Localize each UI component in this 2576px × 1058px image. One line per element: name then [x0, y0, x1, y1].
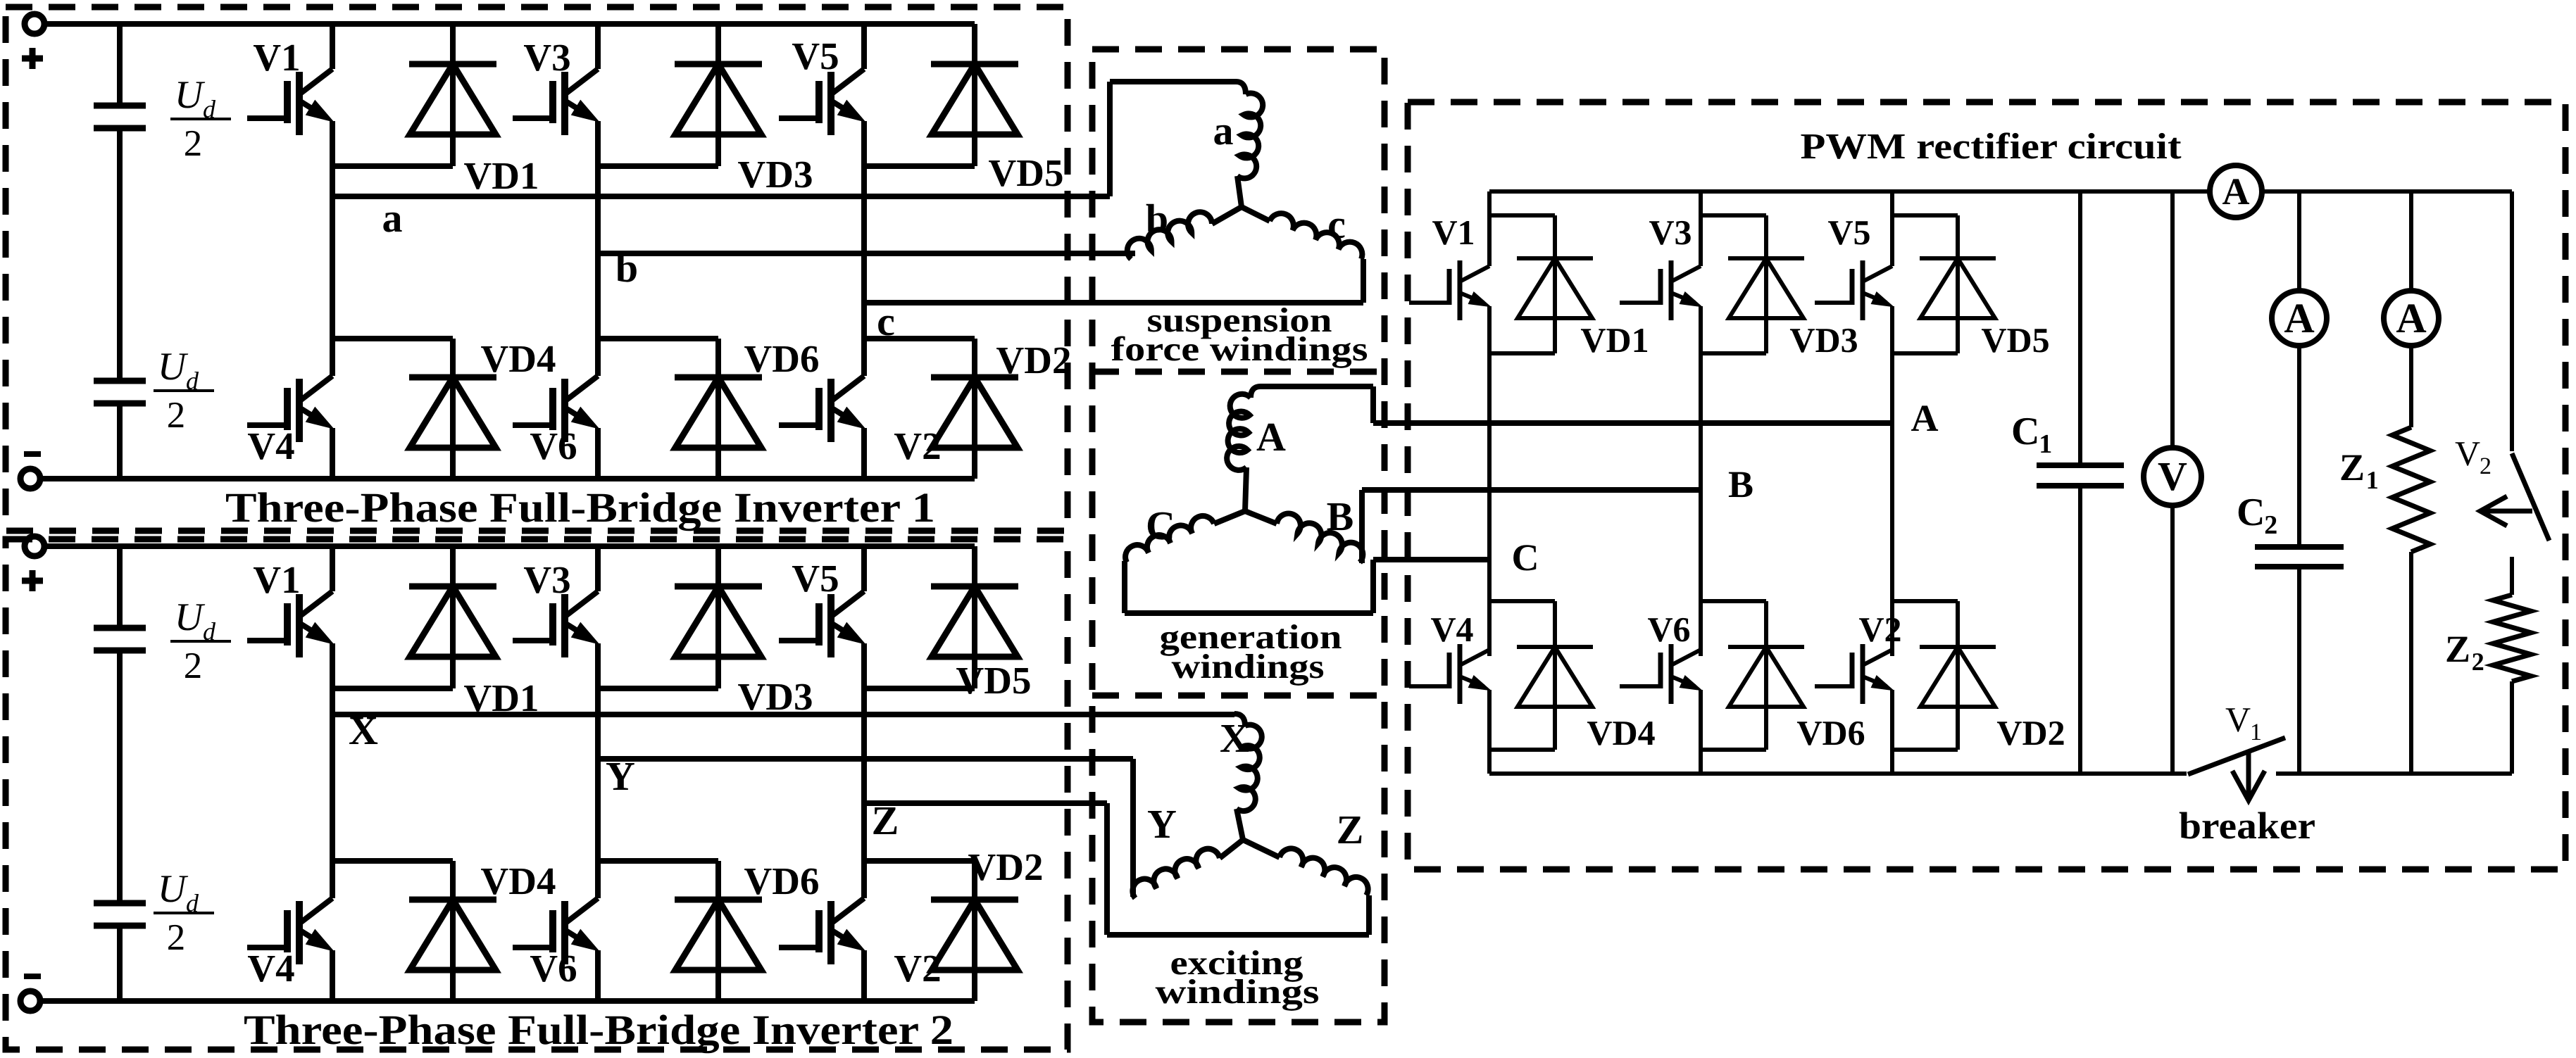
svg-text:c: c [877, 298, 895, 344]
svg-text:V: V [2455, 434, 2480, 473]
svg-text:A: A [2222, 170, 2250, 213]
svg-text:U: U [158, 867, 189, 911]
svg-text:V3: V3 [523, 36, 570, 79]
svg-text:U: U [175, 596, 206, 639]
svg-text:A: A [2284, 295, 2314, 341]
svg-text:VD2: VD2 [1996, 713, 2065, 752]
svg-text:VD6: VD6 [1796, 713, 1865, 752]
svg-text:VD4: VD4 [1587, 713, 1655, 752]
svg-text:V2: V2 [894, 947, 941, 990]
svg-text:V5: V5 [1827, 213, 1870, 252]
svg-text:X: X [1220, 715, 1249, 761]
svg-text:V6: V6 [530, 424, 577, 467]
svg-text:V6: V6 [530, 947, 577, 990]
svg-text:V5: V5 [792, 34, 839, 77]
svg-text:V: V [2225, 700, 2251, 739]
svg-text:V3: V3 [1649, 213, 1692, 252]
svg-text:windings: windings [1172, 647, 1325, 686]
svg-text:C: C [2237, 491, 2265, 534]
svg-text:Z: Z [872, 798, 899, 843]
svg-text:VD2: VD2 [996, 339, 1072, 382]
svg-text:A: A [1256, 414, 1286, 460]
svg-text:2: 2 [2264, 510, 2277, 540]
svg-text:V1: V1 [253, 36, 300, 79]
svg-text:2: 2 [2472, 648, 2484, 676]
svg-text:V4: V4 [247, 947, 294, 990]
svg-text:breaker: breaker [2179, 805, 2315, 847]
svg-text:b: b [1146, 196, 1168, 241]
svg-text:A: A [1911, 397, 1939, 439]
svg-text:X: X [349, 707, 378, 753]
svg-text:2: 2 [184, 123, 203, 164]
svg-text:VD6: VD6 [744, 859, 820, 902]
svg-text:Three-Phase Full-Bridge Inver: Three-Phase Full-Bridge Inverter 1 [225, 484, 935, 531]
svg-text:VD1: VD1 [464, 676, 539, 719]
svg-text:Z: Z [2339, 446, 2365, 489]
svg-text:Y: Y [1147, 801, 1177, 847]
svg-text:U: U [158, 345, 189, 389]
svg-text:Z: Z [2445, 628, 2470, 670]
svg-text:Y: Y [606, 753, 635, 799]
svg-text:V: V [2158, 453, 2187, 499]
svg-text:V1: V1 [1432, 213, 1475, 252]
svg-text:C: C [1512, 536, 1539, 579]
svg-text:C: C [1146, 503, 1175, 548]
svg-text:VD4: VD4 [481, 859, 556, 902]
svg-text:B: B [1728, 463, 1753, 505]
svg-text:VD2: VD2 [968, 845, 1044, 888]
svg-text:c: c [1327, 201, 1346, 247]
svg-text:V4: V4 [247, 424, 294, 467]
svg-text:2: 2 [167, 395, 186, 436]
svg-text:U: U [175, 73, 206, 117]
svg-text:1: 1 [2250, 719, 2262, 745]
svg-text:2: 2 [2480, 453, 2491, 479]
svg-text:VD3: VD3 [738, 153, 813, 196]
svg-text:VD1: VD1 [1580, 320, 1649, 360]
svg-text:1: 1 [2039, 429, 2052, 459]
svg-text:V5: V5 [792, 557, 839, 600]
svg-text:V1: V1 [253, 558, 300, 601]
svg-text:V2: V2 [894, 424, 941, 467]
svg-text:b: b [615, 245, 638, 291]
svg-text:1: 1 [2366, 466, 2379, 494]
svg-text:VD5: VD5 [989, 151, 1064, 194]
svg-text:a: a [382, 195, 403, 241]
svg-text:force windings: force windings [1111, 329, 1368, 368]
svg-text:C: C [2011, 410, 2039, 453]
svg-text:VD4: VD4 [481, 337, 556, 380]
svg-text:2: 2 [167, 917, 186, 958]
svg-text:VD3: VD3 [1789, 320, 1858, 360]
svg-text:Z: Z [1337, 807, 1364, 852]
svg-text:VD6: VD6 [744, 337, 820, 380]
svg-text:VD5: VD5 [956, 659, 1032, 702]
svg-text:V6: V6 [1647, 610, 1690, 649]
svg-text:V2: V2 [1858, 610, 1901, 649]
svg-text:V4: V4 [1430, 610, 1473, 649]
svg-text:VD1: VD1 [464, 154, 539, 197]
svg-text:windings: windings [1156, 972, 1320, 1011]
svg-text:B: B [1327, 493, 1354, 539]
svg-text:V3: V3 [523, 558, 570, 601]
svg-text:VD5: VD5 [1981, 320, 2049, 360]
svg-text:2: 2 [184, 645, 203, 686]
svg-text:a: a [1213, 108, 1234, 153]
svg-text:PWM rectifier circuit: PWM rectifier circuit [1801, 127, 2182, 167]
svg-text:A: A [2396, 295, 2426, 341]
svg-text:VD3: VD3 [738, 675, 813, 718]
